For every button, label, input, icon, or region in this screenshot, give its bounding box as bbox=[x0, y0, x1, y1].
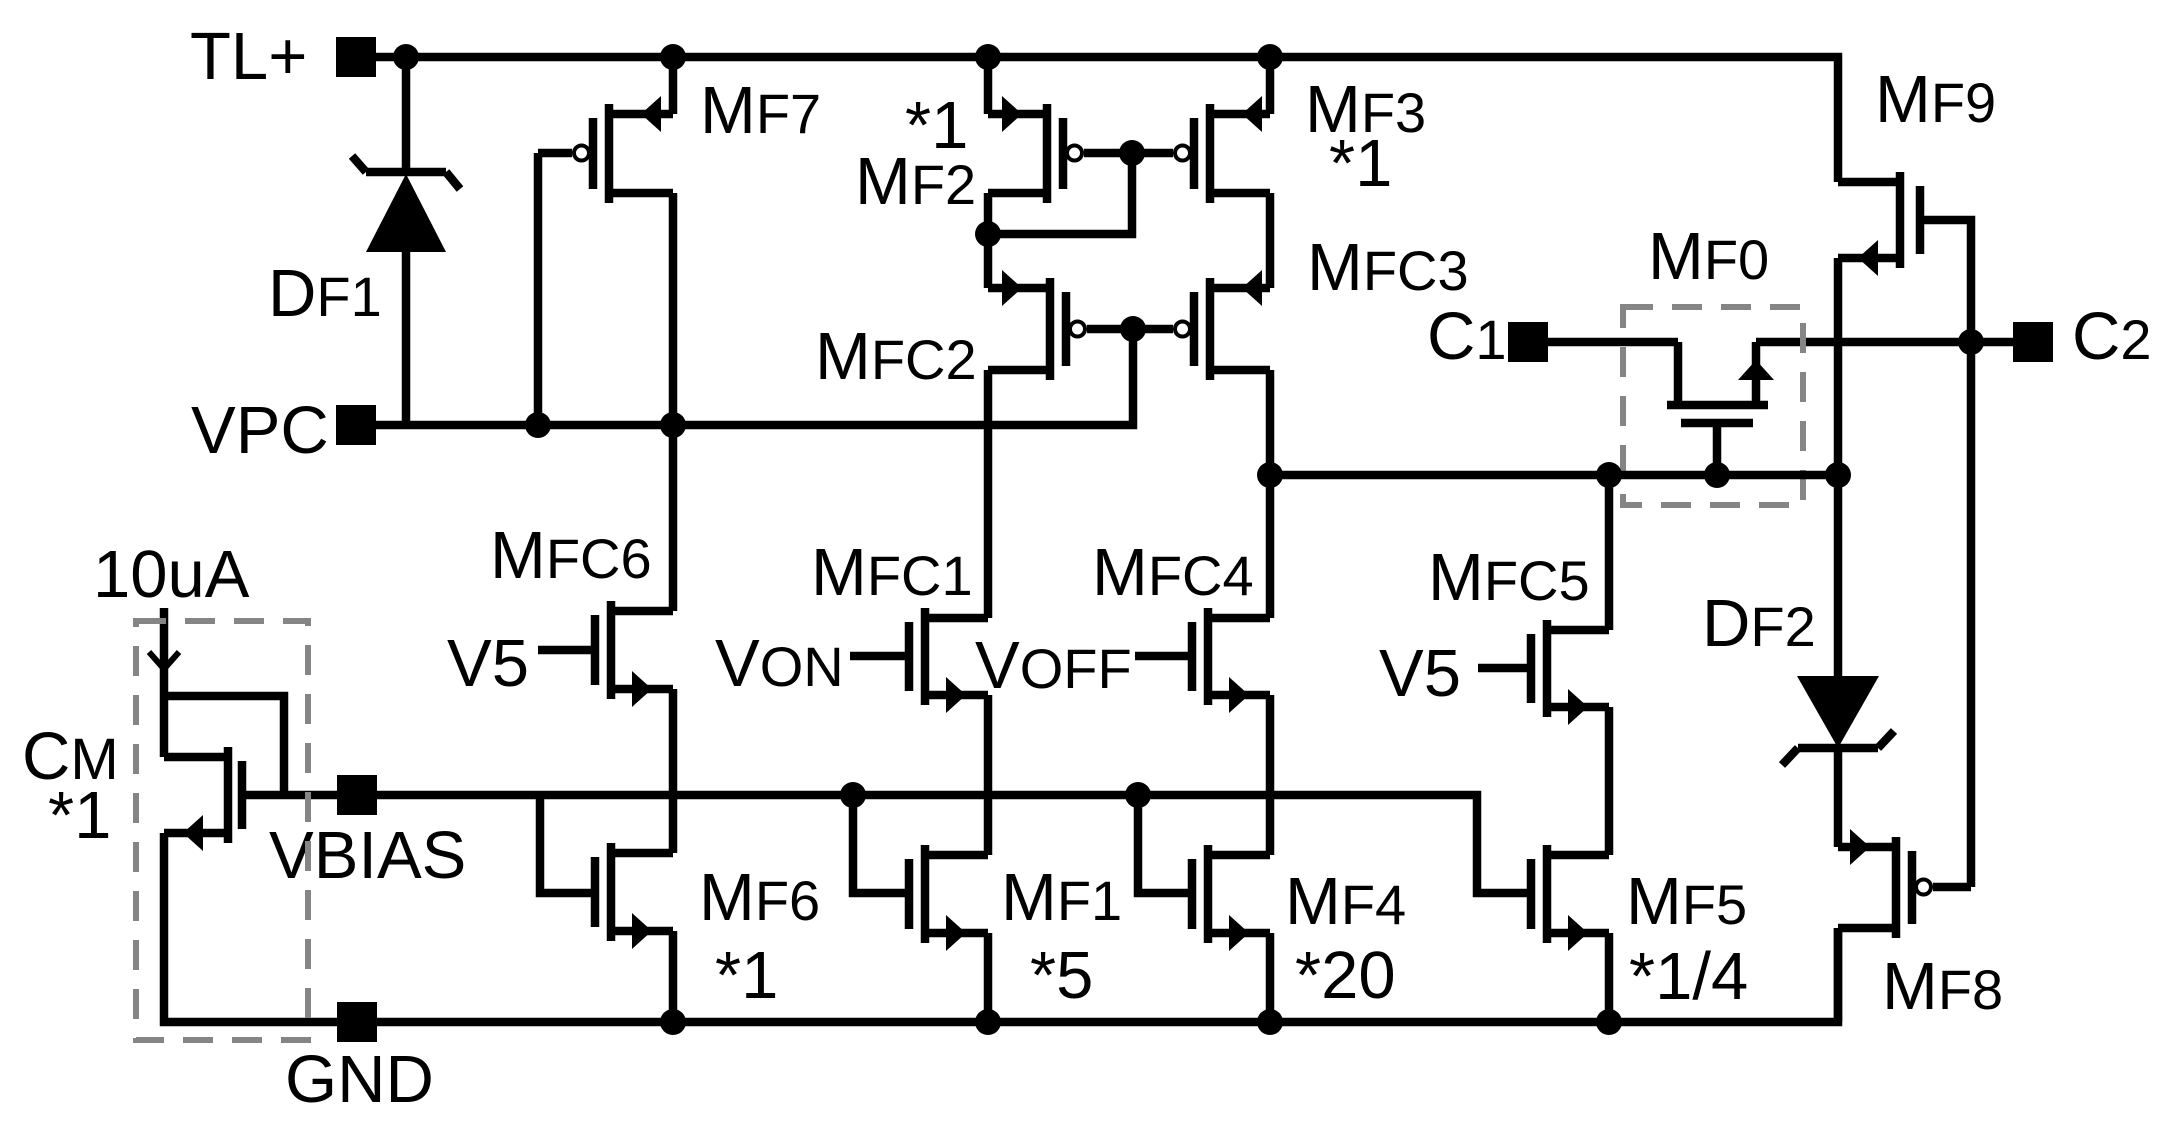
wire TL+ rail bbox=[376, 57, 1838, 182]
wire MF6 source to GND bbox=[669, 931, 678, 1022]
transistor MF0 (lateral) bbox=[1667, 401, 1768, 410]
wire CM source to GND bbox=[164, 833, 337, 1022]
dashed box CM bbox=[136, 621, 308, 1040]
svg-text:DF1: DF1 bbox=[268, 256, 382, 331]
terminal VPC bbox=[336, 405, 376, 445]
wire VPC rail bbox=[376, 329, 1133, 425]
transistor MF2 bbox=[1043, 104, 1052, 203]
junction VBIAS / MF4 gate bbox=[1125, 782, 1151, 808]
wire MFC4 source down bbox=[1266, 695, 1275, 855]
wire MF6 gate tap bbox=[540, 795, 595, 893]
wire MF7 source to VPC bbox=[669, 193, 678, 425]
svg-text:TL+: TL+ bbox=[190, 19, 307, 94]
svg-text:C1: C1 bbox=[1427, 299, 1507, 374]
svg-text:MF8: MF8 bbox=[1882, 949, 2003, 1024]
wire MFC5 drain up bbox=[1605, 475, 1614, 630]
wire MF4 source to GND bbox=[1266, 933, 1275, 1022]
wire MF3 source down bbox=[1266, 193, 1275, 288]
transistor MF8 bbox=[1892, 837, 1901, 938]
svg-text:MFC4: MFC4 bbox=[1092, 535, 1254, 610]
wire MF2 gate tie bbox=[988, 153, 1132, 234]
transistor MFC4 bbox=[1204, 608, 1213, 705]
wire MFC6 source down bbox=[669, 689, 678, 853]
transistor MF9 bbox=[1896, 172, 1905, 268]
junction MFC2/MFC3 gates to VPC bbox=[1120, 316, 1146, 342]
svg-text:*1/4: *1/4 bbox=[1629, 939, 1748, 1014]
svg-text:*20: *20 bbox=[1295, 938, 1396, 1013]
wire MF2 source down bbox=[984, 193, 993, 288]
svg-text:MF5: MF5 bbox=[1626, 864, 1747, 939]
wire MF1 source to GND bbox=[984, 933, 993, 1022]
wire MFC2 source down bbox=[984, 370, 993, 618]
svg-text:MF9: MF9 bbox=[1875, 62, 1996, 137]
transistor MF5 bbox=[1543, 845, 1552, 943]
wire mirror line bbox=[1270, 471, 1838, 480]
junction VBIAS / MF1 gate bbox=[840, 782, 866, 808]
terminal C1 bbox=[1508, 322, 1548, 362]
svg-text:*1: *1 bbox=[1329, 126, 1392, 201]
wire MF2 drain bbox=[984, 57, 993, 114]
transistor MFC2 bbox=[1046, 278, 1055, 380]
wire MF7 gate to VPC bbox=[534, 153, 543, 425]
svg-text:V5: V5 bbox=[1379, 636, 1461, 711]
junction GND/MF4 bbox=[1257, 1009, 1283, 1035]
svg-text:*5: *5 bbox=[1030, 938, 1093, 1013]
svg-text:MF4: MF4 bbox=[1285, 864, 1406, 939]
wire MF8 source to GND bbox=[1834, 928, 1843, 1022]
svg-text:MF7: MF7 bbox=[700, 73, 821, 148]
junction VPC / MF7 gate bbox=[525, 412, 551, 438]
junction MF2/MF3 gates bbox=[1119, 140, 1145, 166]
svg-text:GND: GND bbox=[285, 1042, 434, 1117]
diode DF2 bbox=[1834, 475, 1843, 676]
svg-text:*1: *1 bbox=[905, 88, 968, 163]
wire CM drain-gate tie bbox=[164, 696, 284, 795]
svg-text:MFC6: MFC6 bbox=[490, 518, 652, 593]
junction TL+ rail / MF7 bbox=[660, 44, 686, 70]
junction MF2 source/gate tie bbox=[975, 221, 1001, 247]
transistor MFC1 bbox=[921, 608, 930, 705]
svg-text:*1: *1 bbox=[48, 778, 111, 853]
svg-text:MFC5: MFC5 bbox=[1428, 540, 1590, 615]
wire MF7 drain column bbox=[669, 57, 678, 114]
wire MF4 gate tap bbox=[1138, 795, 1192, 893]
junction mirror/DF2 bbox=[1825, 462, 1851, 488]
svg-text:DF2: DF2 bbox=[1702, 586, 1816, 661]
svg-text:MF1: MF1 bbox=[1001, 860, 1122, 935]
wire MF1 gate tap bbox=[853, 795, 909, 893]
transistor MF1 bbox=[921, 845, 930, 943]
wire MFC3 source down bbox=[1266, 370, 1275, 618]
junction C2 / gate column bbox=[1958, 329, 1984, 355]
svg-text:MFC1: MFC1 bbox=[811, 535, 973, 610]
svg-text:10uA: 10uA bbox=[93, 537, 250, 612]
svg-text:MF6: MF6 bbox=[699, 860, 820, 935]
junction GND/MF6 bbox=[660, 1009, 686, 1035]
svg-text:*1: *1 bbox=[715, 938, 778, 1013]
svg-text:C2: C2 bbox=[2072, 299, 2152, 374]
transistor MF7 bbox=[605, 104, 614, 203]
svg-text:VPC: VPC bbox=[191, 393, 329, 468]
junction mirror/MF0 gate bbox=[1704, 462, 1730, 488]
wire MF5 source to GND bbox=[1605, 933, 1614, 1022]
current source 10uA bbox=[160, 608, 169, 757]
wire MFC5 source down bbox=[1605, 707, 1614, 855]
junction TL+ rail / DF1 bbox=[393, 44, 419, 70]
terminal GND bbox=[337, 1002, 377, 1042]
wire C1 to MF0 bbox=[1548, 338, 1678, 347]
wire VBIAS rail bbox=[377, 795, 1531, 893]
wire GND rail bbox=[377, 928, 1838, 1022]
terminal C2 bbox=[2013, 322, 2053, 362]
transistor MFC6 bbox=[607, 601, 616, 699]
transistor MFC3 bbox=[1206, 278, 1215, 380]
svg-text:MFC3: MFC3 bbox=[1307, 230, 1469, 305]
wire MF9 source down bbox=[1834, 258, 1843, 475]
wire MFC1 source down bbox=[984, 695, 993, 855]
junction MFC3 column / mirror line bbox=[1257, 462, 1283, 488]
junction GND/MF1 bbox=[975, 1009, 1001, 1035]
terminal TL+ bbox=[336, 37, 376, 77]
junction TL+ rail / MF2 bbox=[975, 44, 1001, 70]
svg-text:V5: V5 bbox=[447, 626, 529, 701]
wire MF9 gate bbox=[1920, 220, 1971, 887]
svg-text:VON: VON bbox=[715, 626, 844, 701]
wire MF3 drain bbox=[1266, 57, 1275, 114]
svg-text:MF0: MF0 bbox=[1648, 219, 1769, 294]
junction VPC / MF7 drain column bbox=[660, 412, 686, 438]
wire MF0 to C2 bbox=[1756, 338, 2013, 347]
terminal VBIAS bbox=[337, 775, 377, 815]
transistor CM bbox=[224, 747, 233, 843]
transistor MF3 bbox=[1206, 104, 1215, 203]
junction GND/MF5 bbox=[1596, 1009, 1622, 1035]
wire MFC6 drain up bbox=[669, 425, 678, 611]
transistor MFC5 bbox=[1543, 620, 1552, 717]
transistor MF4 bbox=[1204, 845, 1213, 943]
junction TL+ rail / MF3 bbox=[1257, 44, 1283, 70]
diode DF1 bbox=[402, 57, 411, 172]
dashed box MF0 bbox=[1623, 307, 1803, 505]
svg-text:VBIAS: VBIAS bbox=[269, 818, 466, 893]
transistor MF6 bbox=[607, 843, 616, 941]
svg-text:VOFF: VOFF bbox=[975, 628, 1132, 703]
svg-text:MFC2: MFC2 bbox=[815, 319, 977, 394]
junction mirror/MFC5 bbox=[1596, 462, 1622, 488]
